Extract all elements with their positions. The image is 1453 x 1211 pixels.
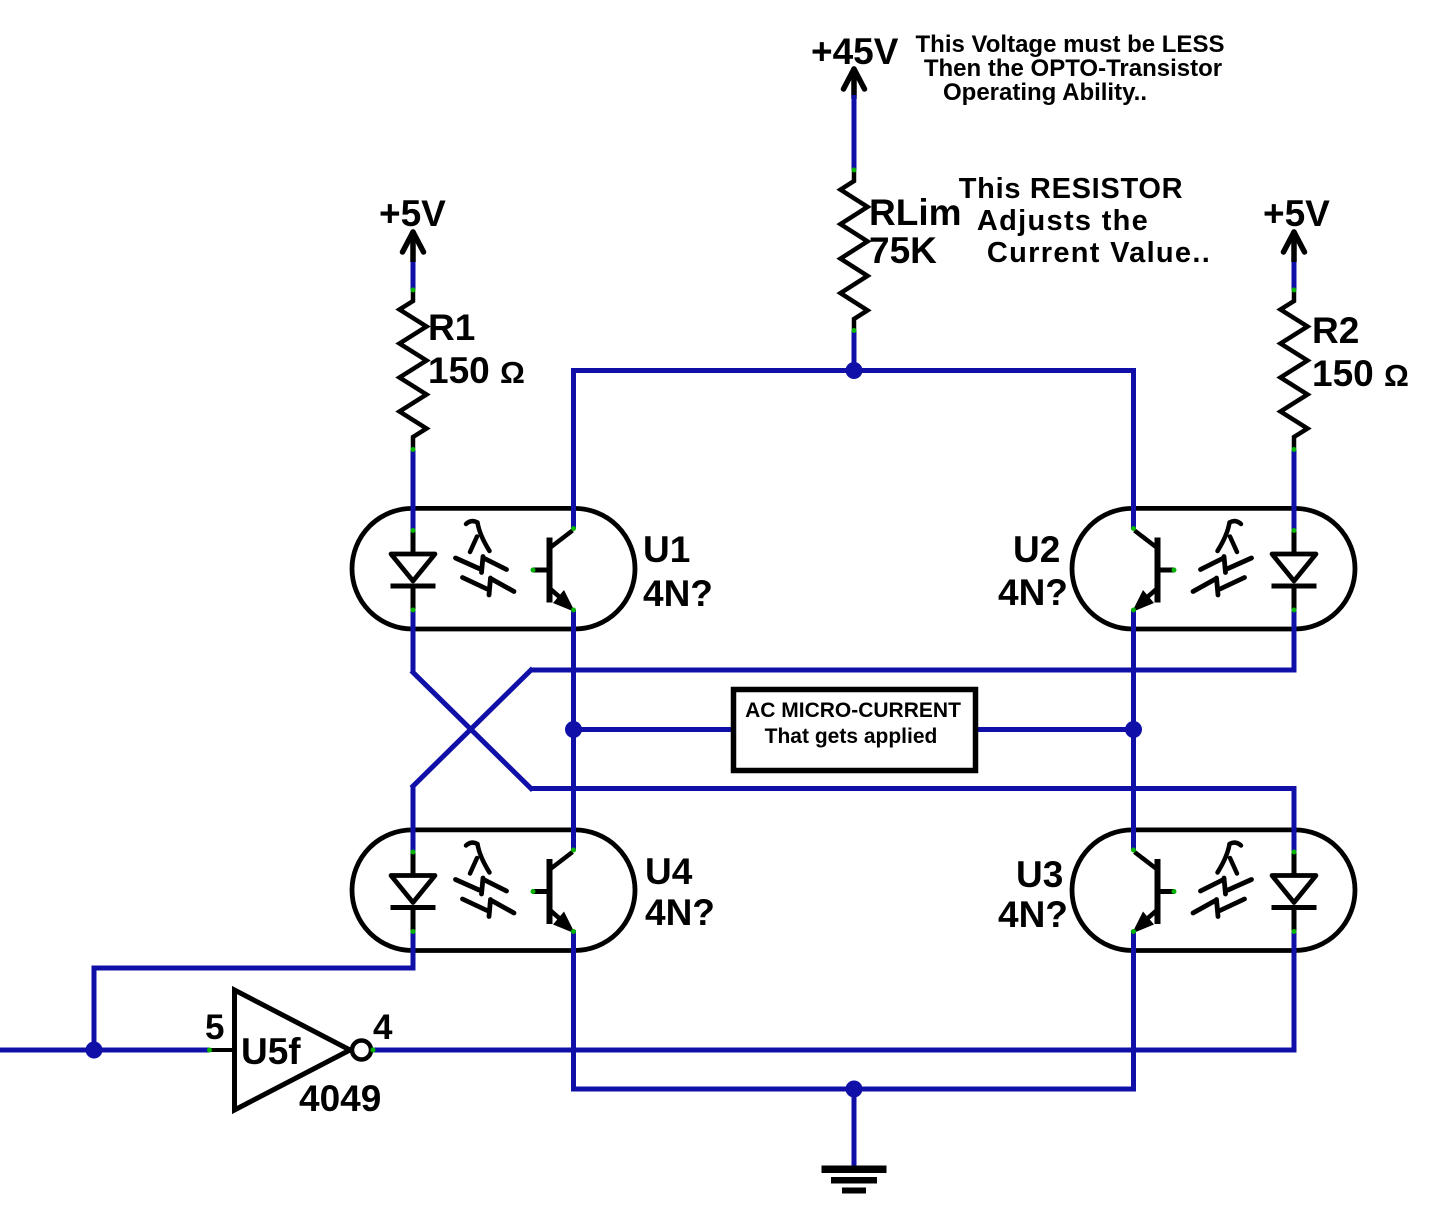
wire: U2 emitter to U3 collector (right mid bus)	[1131, 610, 1136, 850]
wire: U1 emitter to U4 collector (left mid bus)	[571, 610, 576, 850]
LED (emitter diode) of U2	[1292, 512, 1297, 554]
opto-isolator U3 body	[1072, 830, 1355, 951]
wire: right vertical bus to U2 collector	[1131, 370, 1136, 529]
power symbol +5V (right)	[1284, 232, 1295, 252]
svg-text:RLim: RLim	[869, 192, 962, 233]
svg-text:This RESISTOR: This RESISTOR	[959, 173, 1184, 205]
wire: lower crossover horizontal to U3 LED anode	[531, 786, 1294, 791]
pin dots of U2	[1292, 528, 1297, 533]
svg-text:U1: U1	[643, 529, 690, 570]
wire: U3 emitter down to ground bus	[1131, 930, 1136, 1092]
wire: mid horizontal through AC source box	[574, 727, 1134, 732]
wire: bottom ground bus	[571, 1087, 1136, 1092]
pin end dots	[852, 168, 857, 173]
svg-text:Operating Ability..: Operating Ability..	[943, 79, 1147, 106]
photon arrows (light coupling) of U1	[466, 521, 490, 552]
wire: U1 LED cathode down to crossover	[411, 609, 416, 673]
pin dots of U3	[1292, 850, 1297, 855]
wire: U4 emitter down to ground bus	[571, 930, 576, 1092]
svg-text:+45V: +45V	[811, 31, 899, 72]
svg-text:150 Ω: 150 Ω	[428, 350, 525, 391]
wire: U4 LED cathode to inverter feed	[411, 932, 416, 971]
opto-isolator U1 body	[352, 508, 635, 629]
wire: RLim bottom to top bus node	[852, 330, 857, 373]
svg-text:4N?: 4N?	[998, 894, 1068, 935]
svg-text:4049: 4049	[299, 1078, 381, 1119]
svg-text:Adjusts the: Adjusts the	[977, 205, 1149, 237]
svg-text:Then the OPTO-Transistor: Then the OPTO-Transistor	[924, 55, 1222, 82]
svg-text:U3: U3	[1016, 854, 1063, 895]
wire: upper crossover horizontal to U2 LED cathode	[531, 668, 1294, 673]
resistor RLim 75K	[841, 170, 868, 330]
ground symbol	[822, 1166, 887, 1174]
svg-text:U4: U4	[645, 851, 693, 892]
junction node: right mid bus / AC wire	[1125, 721, 1142, 738]
wire: input net to inverter pin 5	[0, 1048, 209, 1053]
LED (emitter diode) of U3	[1292, 834, 1297, 876]
svg-text:That gets applied: That gets applied	[765, 725, 938, 748]
svg-text:This Voltage must be LESS: This Voltage must be LESS	[916, 31, 1225, 58]
svg-text:U5f: U5f	[241, 1031, 301, 1072]
power symbol +5V (left)	[403, 232, 414, 252]
inverter U5f output bubble	[352, 1041, 371, 1060]
svg-text:AC MICRO-CURRENT: AC MICRO-CURRENT	[745, 699, 961, 722]
photon arrows (light coupling) of U2	[1218, 521, 1242, 552]
wire: R1 to U1 LED anode	[411, 450, 416, 530]
svg-text:U2: U2	[1013, 529, 1060, 570]
wire: crossover diagonal U4 anode to upper bus	[411, 668, 532, 788]
svg-text:4N?: 4N?	[645, 892, 715, 933]
photo-transistor of U1	[547, 538, 553, 603]
svg-text:150 Ω: 150 Ω	[1312, 353, 1409, 394]
AC micro-current source box	[734, 690, 976, 771]
resistor R2 150 ohm	[1281, 290, 1308, 448]
resistor R1 150 ohm	[400, 290, 427, 448]
photo-transistor of U4	[547, 859, 553, 924]
wire: +5V left rail to R1	[411, 262, 416, 290]
inverter U5f (4049)	[235, 990, 351, 1110]
svg-text:4: 4	[373, 1008, 393, 1047]
photo-transistor of U2	[1155, 538, 1161, 603]
power symbol +45V	[844, 69, 855, 89]
junction node: left mid bus / AC wire	[565, 721, 582, 738]
svg-text:R2: R2	[1312, 310, 1359, 351]
wire: top horizontal bus U1 collector to U2 collector	[571, 368, 1136, 373]
wire: crossover diagonal U1 cathode to lower bus	[411, 671, 532, 791]
svg-text:R1: R1	[428, 307, 475, 348]
wire: U4 LED anode up to crossover	[411, 786, 416, 852]
svg-text:+5V: +5V	[1263, 193, 1330, 234]
junction node: inverter input	[86, 1042, 103, 1059]
photon arrows (light coupling) of U4	[466, 843, 490, 874]
wire: left vertical bus to U1 collector	[571, 370, 576, 529]
wire: +45V rail down to RLim	[852, 95, 857, 170]
wire: +5V right rail to R2	[1292, 262, 1297, 290]
wire: inverter output pin 4 to U3 LED cathode	[373, 1048, 1294, 1053]
junction node: ground bus	[846, 1081, 863, 1098]
pin dots of U1	[411, 528, 416, 533]
svg-text:Current Value..: Current Value..	[987, 237, 1211, 269]
wire: ground stem	[852, 1089, 857, 1168]
svg-text:75K: 75K	[869, 230, 937, 271]
LED (emitter diode) of U1	[411, 512, 416, 554]
photo-transistor of U3	[1155, 859, 1161, 924]
opto-isolator U2 body	[1072, 508, 1355, 629]
svg-text:4N?: 4N?	[998, 572, 1068, 613]
pin dots of U4	[411, 850, 416, 855]
svg-text:4N?: 4N?	[643, 573, 713, 614]
wire: R2 to U2 LED anode	[1292, 450, 1297, 530]
svg-text:5: 5	[205, 1008, 224, 1047]
junction node: top bus / RLim	[846, 362, 863, 379]
photon arrows (light coupling) of U3	[1218, 843, 1242, 874]
opto-isolator U4 body	[352, 830, 635, 951]
LED (emitter diode) of U4	[411, 834, 416, 876]
svg-text:+5V: +5V	[379, 193, 446, 234]
